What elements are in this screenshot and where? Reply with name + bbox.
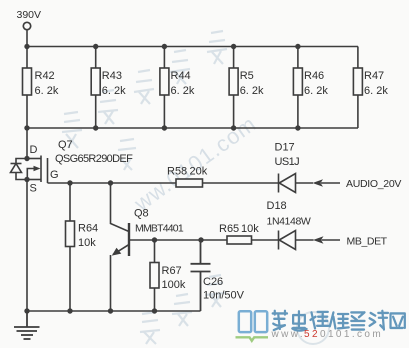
terminal 390V xyxy=(23,22,30,29)
char liao xyxy=(370,311,388,330)
wire second rail xyxy=(27,127,358,129)
logo url xyxy=(271,329,384,340)
svg-text:100k: 100k xyxy=(162,279,186,291)
resistor R44 body xyxy=(160,68,169,95)
signal arrow AUDIO_20V xyxy=(313,179,324,187)
svg-text:0101.com: 0101.com xyxy=(320,329,383,340)
junction second rail / R42 xyxy=(24,125,29,130)
char xiu xyxy=(330,312,349,328)
wire rail2 down to Q7 drain xyxy=(26,128,28,159)
transistor Q8 xyxy=(111,183,130,311)
wire R65 to D18 xyxy=(252,239,279,241)
resistor R67 xyxy=(154,240,156,311)
junction second rail / R43 xyxy=(93,125,98,130)
char zi xyxy=(351,312,364,329)
svg-text:ww.0101.com: ww.0101.com xyxy=(129,111,261,217)
Q7 arrowhead xyxy=(34,166,41,172)
wire Q7 source down to bottom rail xyxy=(26,180,28,312)
svg-text:QSG65R290DEF: QSG65R290DEF xyxy=(55,153,133,165)
resistor R65 xyxy=(227,236,252,244)
node gate/Q8 collector dot xyxy=(108,180,113,185)
node base/R67 dot xyxy=(152,237,157,242)
svg-text:R46: R46 xyxy=(304,70,324,82)
svg-text:G: G xyxy=(50,169,59,181)
wire bottom rail xyxy=(27,310,201,312)
svg-text:6. 2k: 6. 2k xyxy=(102,85,126,97)
wire 390V terminal to top rail xyxy=(26,30,28,47)
Q8 emitter wire xyxy=(111,245,130,312)
svg-text:R58: R58 xyxy=(167,166,187,178)
Q7 source arrow xyxy=(27,169,35,180)
junction top rail / R44 xyxy=(162,44,167,49)
Q8 collector wire xyxy=(111,183,130,232)
svg-text:390V: 390V xyxy=(17,9,42,21)
diode D18 xyxy=(279,231,296,250)
svg-text:10k: 10k xyxy=(241,223,259,235)
junction bottom rail / R64 xyxy=(67,308,72,313)
char jia xyxy=(273,311,287,330)
wire D18 to arrow xyxy=(296,239,314,241)
svg-text:S: S xyxy=(30,183,37,195)
junction second rail / R44 xyxy=(162,125,167,130)
watermark stamp circle xyxy=(297,312,329,344)
Q7 drain node dot xyxy=(24,156,29,161)
junction top rail / R46 xyxy=(295,44,300,49)
junction top rail / 390V feed xyxy=(24,44,29,49)
char wang xyxy=(391,313,405,327)
svg-text:6. 2k: 6. 2k xyxy=(364,85,388,97)
svg-text:R42: R42 xyxy=(35,70,55,82)
svg-text:R5: R5 xyxy=(240,70,254,82)
resistor R47 leads xyxy=(357,47,359,129)
svg-text:Q7: Q7 xyxy=(58,139,73,151)
ground xyxy=(14,311,40,339)
svg-text:AUDIO_20V: AUDIO_20V xyxy=(346,178,401,190)
logo Chinese text (drawn strokes) xyxy=(273,311,405,331)
Q7 source node dot xyxy=(24,177,29,182)
resistor R58 xyxy=(176,179,203,187)
resistor R42 body xyxy=(23,68,32,95)
svg-text:D17: D17 xyxy=(275,142,295,154)
svg-text:R43: R43 xyxy=(102,70,122,82)
svg-text:R64: R64 xyxy=(78,223,98,235)
logo book icon xyxy=(239,311,267,332)
svg-text:6. 2k: 6. 2k xyxy=(35,85,59,97)
watermark line A xyxy=(62,31,227,170)
svg-text:US1J: US1J xyxy=(275,156,300,168)
resistor R5 leads xyxy=(233,47,235,129)
wire D17 to arrow xyxy=(296,182,314,184)
resistor R43 body xyxy=(91,68,100,95)
resistor R5 body xyxy=(229,68,238,95)
resistor R44 leads xyxy=(163,47,165,129)
svg-text:6. 2k: 6. 2k xyxy=(171,85,195,97)
junction bottom rail / R67 xyxy=(152,308,157,313)
svg-text:R67: R67 xyxy=(162,265,182,277)
node base/C26 dot xyxy=(198,237,203,242)
resistor R46 leads xyxy=(297,47,299,129)
svg-text:10k: 10k xyxy=(78,237,96,249)
svg-text:C26: C26 xyxy=(203,276,223,288)
resistor R64 xyxy=(69,183,71,311)
wire top rail xyxy=(27,46,358,48)
char wei xyxy=(310,312,328,329)
wire gate rail xyxy=(48,182,177,184)
signal arrow MB_DET xyxy=(313,236,324,244)
svg-text:R47: R47 xyxy=(364,70,384,82)
Q8 emitter arrowhead xyxy=(112,248,122,256)
transistor Q7 MOSFET xyxy=(11,156,48,184)
Q7 gate bar xyxy=(47,158,49,183)
svg-text:R65: R65 xyxy=(219,223,239,235)
svg-text:R44: R44 xyxy=(171,70,191,82)
svg-text:D18: D18 xyxy=(267,200,287,212)
node gate/R64 dot xyxy=(67,180,72,185)
junction bottom rail / Q8 emitter xyxy=(108,308,113,313)
Q7 channel bar xyxy=(40,156,42,183)
body diode of Q7 xyxy=(16,159,27,180)
svg-text:10n/50V: 10n/50V xyxy=(203,290,245,302)
svg-text:52: 52 xyxy=(304,329,320,340)
diode D17 xyxy=(279,174,296,193)
capacitor C26 xyxy=(191,240,211,311)
logo book stand xyxy=(236,337,269,341)
Q7 drain stub xyxy=(27,158,41,160)
junction second rail / R5 xyxy=(231,125,236,130)
svg-text:6. 2k: 6. 2k xyxy=(240,85,264,97)
char dian xyxy=(292,311,306,330)
svg-text:D: D xyxy=(30,144,38,156)
junction second rail / R46 xyxy=(295,125,300,130)
resistor R42 leads xyxy=(26,47,28,129)
resistor R47 body xyxy=(353,68,362,95)
watermark line C xyxy=(140,275,225,344)
svg-text:www.: www. xyxy=(271,329,306,340)
resistor R43 leads xyxy=(95,47,97,129)
Q7 source stub xyxy=(27,179,41,181)
svg-text:20k: 20k xyxy=(190,166,208,178)
resistor R46 body xyxy=(293,68,302,95)
svg-text:MMBT4401: MMBT4401 xyxy=(135,223,184,235)
svg-text:Q8: Q8 xyxy=(134,208,149,220)
Q8 base bar xyxy=(128,223,130,256)
svg-text:6. 2k: 6. 2k xyxy=(304,85,328,97)
wire R58 to D17 xyxy=(203,182,279,184)
svg-text:MB_DET: MB_DET xyxy=(347,236,388,248)
svg-text:1N4148W: 1N4148W xyxy=(267,216,311,228)
watermark line B www.520101.com xyxy=(129,111,261,217)
junction top rail / R43 xyxy=(93,44,98,49)
wire Q8 base rail xyxy=(129,239,227,241)
junction top rail / R5 xyxy=(231,44,236,49)
junction bottom rail / ground xyxy=(24,308,29,313)
